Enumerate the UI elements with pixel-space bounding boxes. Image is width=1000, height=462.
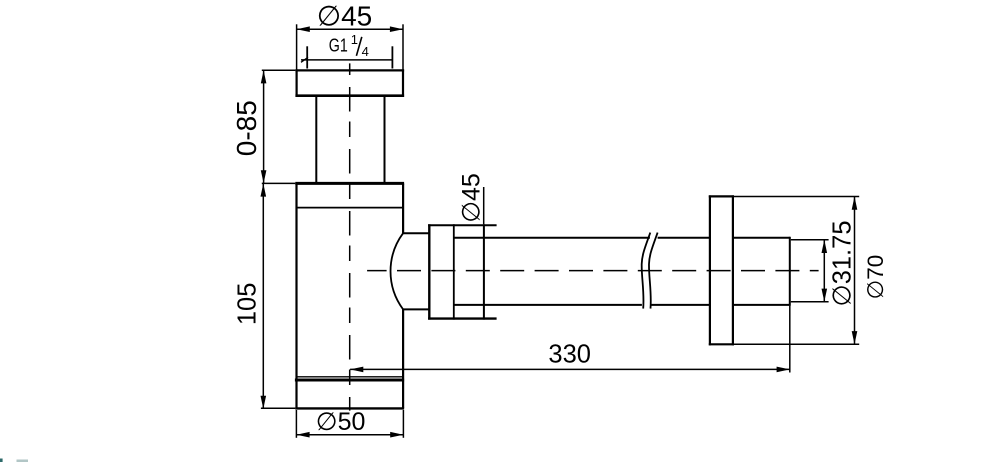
extension line ø50 left	[295, 410, 297, 438]
pipe end bottom line	[734, 304, 790, 306]
body left edge	[295, 183, 297, 408]
pipe bottom line right of break	[650, 304, 709, 306]
svg-text:105: 105	[233, 283, 261, 326]
body bottom line	[295, 407, 404, 409]
vertical centerline	[349, 63, 351, 410]
extension line ø70 bottom	[734, 343, 859, 345]
body right edge upper	[402, 183, 404, 233]
nut top line	[428, 224, 497, 226]
pipe end right edge	[789, 237, 791, 306]
arrow 330 right	[777, 367, 790, 373]
arrow ø45 right	[390, 26, 403, 32]
pipe end top line	[734, 237, 790, 239]
svg-text:4: 4	[362, 44, 369, 59]
wall flange bottom line	[709, 343, 734, 345]
extension line ø31.75 top	[791, 239, 829, 241]
nut right edge	[483, 224, 485, 319]
extension line 105 bottom	[261, 407, 295, 409]
nut inner line	[453, 224, 455, 319]
watermark artifact dark	[0, 459, 3, 462]
arrow ø31.75 top	[822, 240, 828, 253]
watermark artifact light	[17, 460, 29, 462]
arrow 0-85 bottom	[261, 170, 267, 183]
arrow ø50 left	[296, 432, 309, 438]
dimension ø31.75 line	[823, 240, 825, 302]
arrow ø31.75 bottom	[822, 289, 828, 302]
top flange top line	[295, 69, 404, 71]
arrow ø70 bottom	[852, 331, 858, 344]
arrow 0-85 top	[261, 70, 267, 83]
dome top line	[402, 232, 428, 234]
horizontal centerline	[367, 270, 818, 272]
extension line 105 top	[262, 182, 296, 184]
arrow ø70 top	[852, 197, 858, 210]
top flange bottom line	[295, 94, 404, 97]
svg-text:330: 330	[548, 341, 591, 369]
extension line 0-85 top	[262, 69, 296, 71]
extension line ø31.75 bottom	[791, 301, 829, 303]
nut left edge	[428, 224, 430, 319]
svg-text:∅50: ∅50	[316, 408, 366, 436]
body thin line above band	[297, 376, 404, 378]
dome arc	[391, 233, 404, 309]
svg-text:∅45: ∅45	[317, 1, 373, 32]
extension line ø50 right	[402, 410, 404, 438]
dimension line ø45 (top)	[297, 28, 404, 30]
top flange right edge	[402, 69, 404, 97]
dimension ø45 fitting line	[483, 187, 485, 224]
svg-text:∅70: ∅70	[863, 255, 888, 300]
break curve right	[649, 233, 658, 309]
tick G1 1/4 left	[306, 46, 308, 68]
arrow 105 bottom	[261, 396, 267, 409]
dimension line G1 1/4	[301, 59, 393, 61]
arrow 330 left	[350, 367, 363, 373]
break curve left	[642, 233, 651, 309]
body inner line	[297, 207, 404, 209]
svg-text:0-85: 0-85	[231, 100, 262, 156]
svg-text:G1: G1	[329, 36, 348, 56]
top flange left edge	[296, 69, 298, 97]
nut bottom line	[428, 317, 497, 319]
pipe bottom line left of break	[454, 304, 642, 306]
body top line	[295, 182, 404, 185]
tick G1 1/4 right	[391, 46, 393, 68]
tube right edge	[384, 97, 386, 183]
extension line ø70 top	[734, 196, 859, 198]
oblique tick G1 1/4 left end	[301, 57, 308, 62]
dimension ø70 line	[854, 197, 856, 345]
extension line 330 right	[789, 306, 791, 373]
dome bottom line	[402, 308, 428, 310]
extension line ø45 left	[296, 24, 298, 70]
tube left edge	[315, 97, 317, 183]
dimension 105 line	[262, 183, 264, 409]
body right edge lower	[402, 309, 404, 408]
wall flange right edge	[732, 195, 734, 345]
svg-text:∅31.75: ∅31.75	[828, 220, 856, 306]
thread label G1 1/4	[329, 32, 369, 59]
dimension 0-85 line	[263, 70, 265, 183]
pipe top line left of break	[454, 237, 650, 239]
svg-text:∅45: ∅45	[457, 173, 485, 223]
wall flange left edge	[709, 195, 711, 345]
arrow 105 top	[261, 183, 267, 196]
dimension 330 line	[350, 368, 790, 370]
arrow ø50 right	[390, 432, 403, 438]
dimension line ø50	[296, 434, 403, 436]
pipe top line right of break	[658, 237, 709, 239]
wall flange top line	[709, 195, 734, 197]
arrow ø45 left	[297, 26, 310, 32]
svg-text:1: 1	[351, 32, 358, 47]
extension line ø45 right	[402, 24, 404, 70]
body thick band	[295, 378, 404, 381]
